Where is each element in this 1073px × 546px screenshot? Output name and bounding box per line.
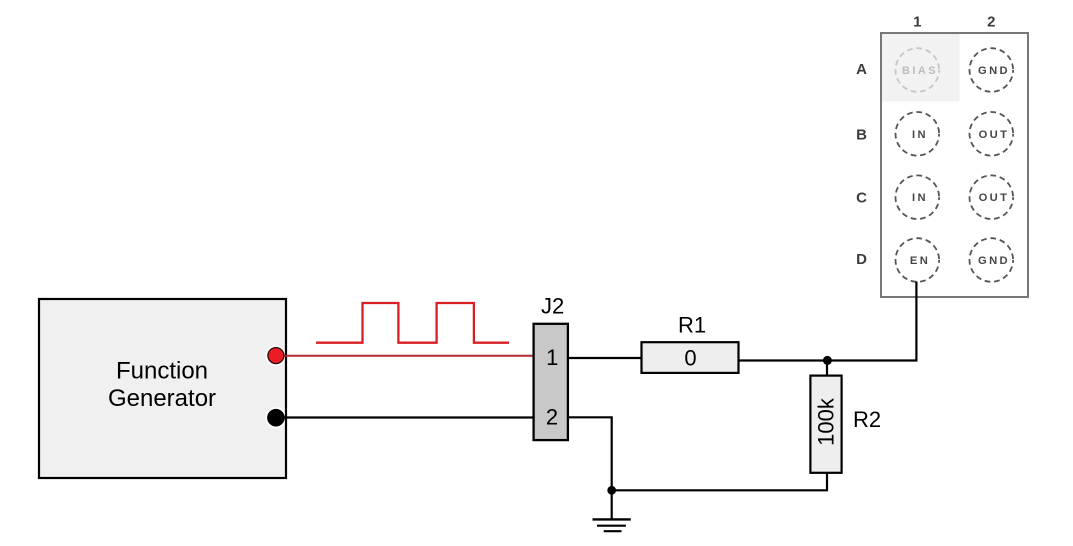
U1 body border bbox=[881, 33, 1028, 297]
svg-text:C: C bbox=[856, 189, 867, 206]
U1 pin A1 BIAS bbox=[896, 48, 940, 92]
U1 pin A1 highlight cell bbox=[882, 34, 960, 102]
U1 pin B2 OUT bbox=[970, 112, 1014, 156]
resistor R2 bbox=[810, 376, 881, 473]
wire: ground node to ground symbol bbox=[611, 490, 613, 519]
connector U1 pin-grid body bbox=[881, 33, 1028, 297]
svg-text:A: A bbox=[856, 61, 867, 78]
svg-text:B: B bbox=[856, 126, 867, 143]
svg-text:R2: R2 bbox=[853, 407, 881, 432]
svg-text:IN: IN bbox=[912, 129, 928, 141]
svg-text:GND: GND bbox=[978, 65, 1010, 77]
U1 pin C1 IN bbox=[896, 175, 940, 219]
svg-text:2: 2 bbox=[987, 14, 995, 31]
wire: FG positive output to J2 pin 1 (red) bbox=[283, 355, 533, 357]
svg-text:Generator: Generator bbox=[108, 385, 216, 412]
wire: J2 pin 1 to R1 bbox=[569, 357, 642, 359]
svg-text:BIAS: BIAS bbox=[902, 65, 938, 77]
svg-text:OUT: OUT bbox=[979, 129, 1010, 141]
svg-text:1: 1 bbox=[546, 345, 558, 370]
svg-text:OUT: OUT bbox=[979, 192, 1010, 204]
svg-text:Function: Function bbox=[116, 358, 208, 385]
U1 pin C2 OUT bbox=[970, 175, 1014, 219]
U1 pin A2 GND bbox=[970, 48, 1014, 92]
svg-text:R1: R1 bbox=[678, 313, 706, 338]
svg-text:0: 0 bbox=[684, 346, 696, 371]
U1 pin D1 EN bbox=[896, 238, 940, 282]
svg-text:2: 2 bbox=[546, 404, 558, 429]
FG negative terminal (black) bbox=[267, 409, 285, 427]
connector J2 bbox=[534, 293, 568, 440]
svg-text:J2: J2 bbox=[541, 293, 564, 318]
wire: FG negative output to J2 pin 2 bbox=[283, 416, 533, 418]
svg-text:D: D bbox=[856, 251, 867, 268]
node A junction dot bbox=[823, 356, 832, 365]
svg-text:GND: GND bbox=[978, 255, 1010, 267]
ground symbol bbox=[593, 519, 631, 531]
resistor R1 bbox=[642, 313, 739, 373]
Function Generator box bbox=[39, 299, 287, 478]
wire: J2 pin 2 to ground node bbox=[569, 417, 612, 490]
svg-text:EN: EN bbox=[910, 255, 930, 267]
U1 pin B1 IN bbox=[896, 112, 940, 156]
U1 pin D2 GND bbox=[970, 238, 1014, 282]
wire: R2 bottom to ground rail bbox=[612, 473, 827, 491]
svg-text:1: 1 bbox=[913, 14, 921, 31]
square wave signal bbox=[316, 303, 509, 343]
ground node junction dot bbox=[607, 486, 616, 495]
svg-text:IN: IN bbox=[912, 192, 928, 204]
FG positive terminal (red) bbox=[268, 348, 284, 364]
svg-text:100k: 100k bbox=[814, 397, 839, 446]
wire: node A to R2 top bbox=[826, 361, 828, 377]
wire: R1 to node A and to EN pin riser bbox=[739, 282, 917, 361]
